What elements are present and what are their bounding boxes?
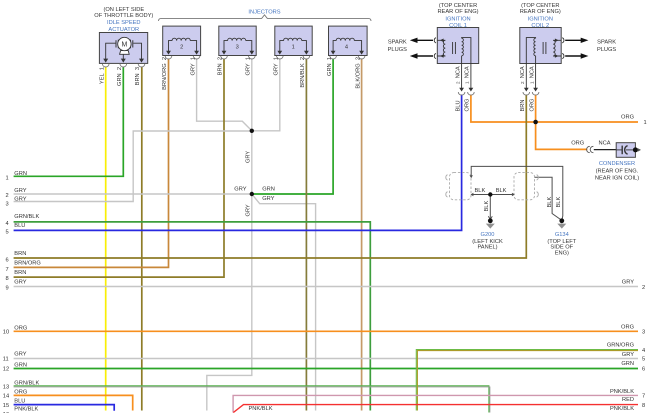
svg-text:GRY: GRY: [622, 352, 634, 358]
wire BRN ignition coil 2 pin 2 to row 6: [14, 95, 527, 259]
ignition coil 1 header: [437, 3, 478, 29]
svg-text:RED: RED: [622, 397, 634, 403]
wire ORG ignition coil 2 pin 1: [535, 95, 537, 123]
BLK vertical labels: [484, 197, 562, 212]
svg-text:3: 3: [6, 201, 9, 207]
wire NCA to condenser: [594, 149, 616, 151]
svg-text:COIL 2: COIL 2: [531, 23, 549, 29]
svg-text:GRY: GRY: [14, 188, 26, 194]
idle speed actuator header: [94, 7, 153, 33]
svg-text:BRN/ORG: BRN/ORG: [14, 260, 41, 266]
svg-text:BRN: BRN: [14, 270, 26, 276]
idle speed actuator box: [99, 33, 147, 64]
svg-text:ORG: ORG: [14, 325, 27, 331]
injector 1: [275, 26, 312, 55]
inline connector left (dashed): [446, 173, 471, 200]
wire RED to right row 8: [233, 405, 638, 413]
svg-text:2 NCA: 2 NCA: [455, 66, 461, 84]
svg-text:GRY: GRY: [14, 279, 26, 285]
svg-text:BLU: BLU: [455, 100, 461, 111]
condenser caption: [595, 161, 639, 181]
svg-text:G134: G134: [555, 232, 569, 238]
svg-text:GRN 2: GRN 2: [117, 67, 123, 86]
wire BRN from idle speed actuator pin 3: [141, 67, 143, 411]
splice dot GRY injectors: [250, 129, 254, 133]
wire ORG ignition coil 1 pin 1 to right row 1: [471, 95, 638, 123]
wire ORG branch to condenser: [536, 122, 588, 149]
svg-text:5: 5: [642, 357, 645, 363]
wire BLK between connectors through splice: [472, 194, 514, 196]
svg-text:GRY: GRY: [262, 196, 274, 202]
left row labels: [14, 171, 41, 413]
svg-text:2 NCA: 2 NCA: [520, 66, 526, 84]
svg-text:15: 15: [3, 403, 9, 409]
condenser C1: [616, 143, 641, 158]
svg-text:NEAR IGN COIL): NEAR IGN COIL): [595, 175, 639, 181]
wire GRY branch from splice down: [252, 194, 316, 411]
spark plugs label coil 1: [388, 40, 407, 53]
svg-text:GRY 1: GRY 1: [274, 57, 280, 76]
wire BRN/BLK injector 1 pin 2: [305, 59, 307, 411]
wire BLU row 15: [14, 405, 115, 411]
svg-text:7: 7: [642, 394, 645, 400]
svg-text:GRN: GRN: [262, 186, 275, 192]
wire BLU row 5 to ignition coil 1 pin 2: [14, 95, 462, 231]
wire GRY injector 2 pin 1 to splice: [197, 59, 252, 131]
wire BLK connector 2 to ground G134: [534, 177, 561, 220]
svg-text:BRN/ORG 2: BRN/ORG 2: [162, 57, 168, 90]
right row labels: [607, 114, 634, 412]
svg-text:6: 6: [6, 258, 9, 264]
splice dot ORG coils: [533, 120, 538, 125]
wire GRN/ORG to right row 4: [416, 350, 638, 411]
svg-text:IGNITION: IGNITION: [445, 16, 470, 22]
svg-text:REAR OF ENG): REAR OF ENG): [437, 9, 478, 15]
GRY vertical labels: [245, 151, 251, 217]
svg-text:BLK: BLK: [496, 188, 507, 194]
svg-text:GRY: GRY: [622, 279, 634, 285]
wire GRY row 11: [14, 358, 638, 360]
svg-text:14: 14: [3, 394, 9, 400]
svg-text:GRY: GRY: [245, 204, 251, 216]
ignition coil pin labels NCA: [455, 66, 535, 84]
wire GRN row 12: [14, 368, 638, 370]
wire BRN/ORG injector 2 pin 2 to row 7: [14, 59, 169, 268]
svg-text:PNK/BLK: PNK/BLK: [610, 389, 634, 395]
wire GRN/BLK row 4: [14, 222, 371, 411]
svg-text:PANEL): PANEL): [477, 244, 497, 250]
svg-text:GRY: GRY: [14, 197, 26, 203]
svg-text:13: 13: [3, 385, 9, 391]
svg-text:ORG: ORG: [621, 324, 634, 330]
svg-text:BLK: BLK: [556, 197, 562, 208]
injector 2 pin sockets: [165, 56, 200, 59]
svg-text:G200: G200: [481, 232, 495, 238]
svg-text:BLK: BLK: [475, 188, 486, 194]
svg-text:BRN/BLK 2: BRN/BLK 2: [300, 57, 306, 88]
svg-text:(TOP CENTER: (TOP CENTER: [439, 3, 477, 9]
svg-text:GRN/BLK: GRN/BLK: [14, 380, 39, 386]
svg-text:PNK/BLK: PNK/BLK: [14, 406, 38, 412]
svg-text:PLUGS: PLUGS: [597, 47, 616, 53]
injector 3 pin sockets: [221, 56, 255, 59]
wire GRY injector 3 pin 1 through splices down: [207, 59, 252, 411]
wire GRY row 9: [14, 286, 638, 288]
wire BLK/ORG injector 4 pin 2: [361, 59, 363, 411]
svg-text:1 NCA: 1 NCA: [465, 66, 471, 84]
svg-text:11: 11: [3, 357, 9, 363]
svg-text:ENG): ENG): [555, 250, 569, 256]
svg-text:2: 2: [180, 44, 183, 50]
svg-text:(REAR OF ENG.: (REAR OF ENG.: [596, 168, 639, 174]
left row numbers: [3, 176, 9, 413]
svg-text:10: 10: [3, 330, 9, 336]
ignition coil 1 pin leads: [458, 64, 474, 96]
svg-text:(TOP CENTER: (TOP CENTER: [521, 3, 559, 9]
svg-text:ACTUATOR: ACTUATOR: [108, 27, 139, 33]
spark plugs label coil 2: [597, 40, 616, 53]
ignition coil 2 pin leads: [523, 64, 539, 96]
svg-text:SPARK: SPARK: [597, 40, 616, 46]
svg-text:YEL 1: YEL 1: [99, 67, 105, 84]
coil lead wire labels: [455, 99, 535, 112]
svg-text:BRN: BRN: [14, 251, 26, 257]
ground G200 caption: [472, 232, 503, 250]
svg-text:IDLE SPEED: IDLE SPEED: [107, 20, 141, 26]
idle speed actuator pin sockets: [102, 64, 144, 67]
wire GRN splice to injector 4 pin 1: [252, 59, 333, 194]
svg-text:12: 12: [3, 367, 9, 373]
ground G134 caption: [547, 232, 576, 256]
svg-text:BRN 2: BRN 2: [218, 57, 224, 75]
svg-text:2: 2: [642, 285, 645, 291]
svg-text:PNK/BLK: PNK/BLK: [610, 406, 634, 412]
svg-text:BLK: BLK: [547, 197, 553, 208]
svg-text:1: 1: [292, 44, 295, 50]
wire GRY row 3 to splice: [14, 131, 252, 202]
wire PNK/BLK to right row 7: [233, 395, 638, 412]
svg-text:3: 3: [236, 44, 239, 50]
svg-text:7: 7: [6, 267, 9, 273]
inline connector right (dashed): [514, 173, 538, 200]
svg-text:ORG: ORG: [571, 140, 584, 146]
svg-text:M: M: [121, 42, 127, 49]
right row numbers: [642, 120, 647, 409]
svg-text:PNK/BLK: PNK/BLK: [249, 406, 273, 412]
svg-text:SPARK: SPARK: [388, 40, 407, 46]
wire ORG row 14: [14, 395, 133, 410]
wire GRN from idle speed actuator pin 2 to row 1: [14, 67, 124, 176]
wire ORG row 10: [14, 330, 638, 332]
svg-text:REAR OF ENG): REAR OF ENG): [520, 9, 561, 15]
injector 2: [163, 26, 201, 55]
connector to condenser: [587, 146, 594, 152]
svg-text:GRN 1: GRN 1: [327, 57, 333, 76]
svg-text:4: 4: [345, 44, 348, 50]
svg-text:BLK/ORG 2: BLK/ORG 2: [355, 57, 361, 89]
ignition coil 1 spark plug wires: [410, 38, 436, 59]
svg-text:GRN: GRN: [14, 171, 27, 177]
svg-text:GRY: GRY: [234, 187, 246, 193]
svg-text:4: 4: [642, 348, 645, 354]
svg-text:OF THROTTLE BODY): OF THROTTLE BODY): [94, 13, 153, 19]
injectors brace: [159, 15, 372, 21]
svg-text:GRY: GRY: [245, 151, 251, 163]
injector 4: [329, 26, 368, 55]
svg-text:1 NCA: 1 NCA: [529, 66, 535, 84]
BLK wire arrows at connectors: [470, 175, 473, 178]
svg-text:ORG: ORG: [14, 389, 27, 395]
wire BLK splice to ground G200: [489, 195, 491, 219]
svg-text:ORG: ORG: [465, 99, 471, 112]
idle speed actuator pin labels: [99, 67, 141, 86]
ground G200: [486, 216, 495, 228]
svg-text:BLK: BLK: [484, 201, 490, 212]
svg-text:GRY: GRY: [14, 351, 26, 357]
ignition coil 2 spark plug wires: [562, 38, 588, 59]
wire BLK top link: [471, 166, 563, 220]
svg-text:PLUGS: PLUGS: [388, 47, 407, 53]
ignition coil 2 box: [520, 28, 561, 64]
svg-text:GRN: GRN: [14, 363, 27, 369]
wire GRY injector 1 pin 1 to splice: [252, 59, 280, 131]
svg-text:IGNITION: IGNITION: [528, 16, 553, 22]
svg-text:GRN/BLK: GRN/BLK: [14, 214, 39, 220]
injector 1 pin sockets: [277, 56, 310, 59]
svg-text:1: 1: [6, 176, 9, 182]
wire GRN/BLK row 13: [14, 386, 489, 413]
svg-text:BRN 3: BRN 3: [135, 67, 141, 85]
svg-text:4: 4: [6, 221, 9, 227]
ignition coil 2 header: [520, 3, 561, 29]
svg-text:BLU: BLU: [14, 223, 25, 229]
svg-text:6: 6: [642, 367, 645, 373]
wire GRY row 2 to splice: [14, 193, 252, 195]
svg-text:8: 8: [642, 403, 645, 409]
injector 3: [219, 26, 256, 55]
svg-text:5: 5: [6, 230, 9, 236]
svg-text:ORG: ORG: [529, 99, 535, 112]
svg-text:8: 8: [6, 276, 9, 282]
svg-text:INJECTORS: INJECTORS: [248, 9, 280, 15]
wire YEL from idle speed actuator pin 1: [105, 67, 107, 411]
svg-text:9: 9: [6, 286, 9, 292]
svg-text:GRY 1: GRY 1: [190, 57, 196, 76]
wire BRN injector 3 pin 2 to row 8: [14, 59, 224, 278]
splice dot GRY GRN: [250, 192, 254, 196]
svg-text:GRY 1: GRY 1: [246, 57, 252, 76]
svg-text:2: 2: [6, 193, 9, 199]
injector pin labels: [162, 57, 361, 90]
svg-text:CONDENSER: CONDENSER: [599, 161, 635, 167]
svg-text:COIL 1: COIL 1: [449, 23, 467, 29]
svg-text:NCA: NCA: [599, 140, 611, 146]
injector 4 pin sockets: [330, 56, 365, 59]
svg-text:GRN/ORG: GRN/ORG: [607, 343, 634, 349]
svg-text:3: 3: [642, 330, 645, 336]
svg-text:BRN: BRN: [520, 99, 526, 111]
svg-text:ORG: ORG: [621, 114, 634, 120]
svg-text:GRN: GRN: [621, 361, 634, 367]
splice dot BLK G200: [488, 192, 492, 196]
svg-text:BLU: BLU: [14, 399, 25, 405]
ground G134: [557, 218, 566, 228]
ignition coil 1 box: [437, 28, 478, 64]
svg-text:1: 1: [644, 120, 647, 126]
